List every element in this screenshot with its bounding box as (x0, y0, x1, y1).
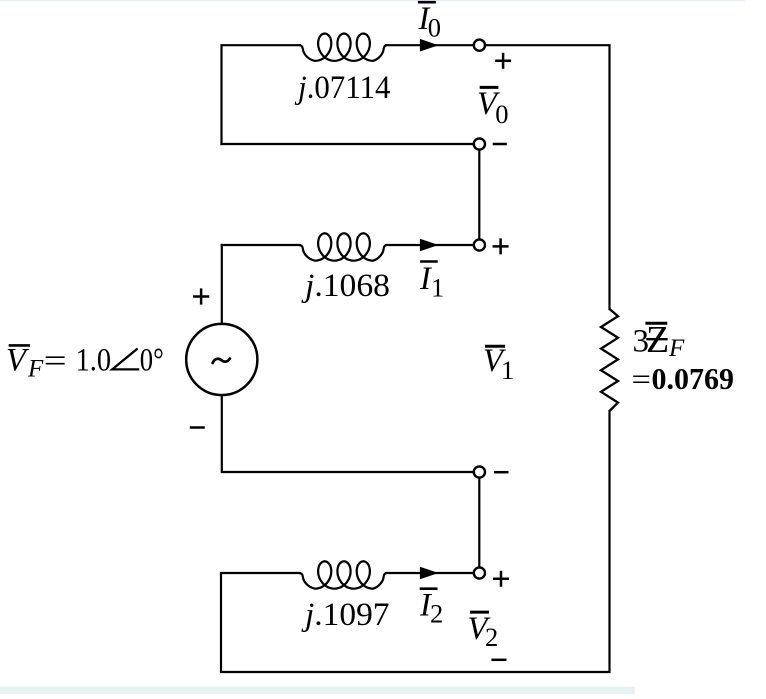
svg-text:2: 2 (485, 622, 498, 652)
svg-text:j.1097: j.1097 (301, 597, 390, 633)
svg-text:V: V (6, 343, 29, 379)
svg-text:0°: 0° (140, 343, 164, 379)
svg-text:0: 0 (428, 13, 441, 43)
svg-text:=: = (44, 344, 67, 380)
svg-text:j.1068: j.1068 (301, 268, 390, 304)
svg-text:F: F (668, 335, 685, 362)
svg-text:1.0: 1.0 (76, 343, 112, 379)
svg-text:0: 0 (495, 99, 508, 129)
svg-text:0.0769: 0.0769 (652, 362, 735, 396)
svg-text:2: 2 (430, 599, 443, 629)
svg-text:1: 1 (431, 273, 444, 303)
svg-text:1: 1 (501, 355, 514, 385)
svg-text:F: F (27, 356, 44, 383)
svg-text:=: = (632, 362, 652, 396)
svg-text:j.07114: j.07114 (294, 70, 390, 106)
